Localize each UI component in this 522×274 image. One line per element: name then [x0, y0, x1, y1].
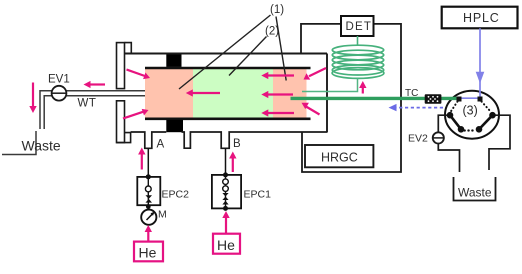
liner green section — [193, 69, 273, 118]
svg-text:(1): (1) — [270, 4, 284, 16]
injector flange plate top — [117, 43, 125, 89]
pointer line 1a — [179, 15, 271, 89]
svg-text:M: M — [158, 209, 167, 221]
gauge M — [141, 210, 156, 225]
wire DET left — [301, 24, 341, 54]
arrow into liner upper left — [127, 70, 145, 76]
liner bottom wall — [145, 118, 311, 121]
He source 1 — [213, 234, 240, 254]
waste container left — [2, 131, 36, 155]
svg-text:TC: TC — [405, 88, 418, 99]
waste container right — [454, 177, 496, 201]
svg-text:Waste: Waste — [458, 186, 492, 200]
detector DET box — [341, 16, 374, 36]
ferrule block bottom — [166, 120, 183, 132]
arrow mid liner left — [191, 92, 220, 94]
liner salmon section 1 — [145, 69, 193, 118]
six-port valve (3) body — [445, 91, 499, 139]
pink arrow He2 to gauge — [147, 230, 149, 242]
svg-text:Waste: Waste — [22, 138, 61, 154]
arrow right-1 — [267, 74, 295, 76]
arrow right-2 — [267, 93, 294, 95]
oven right edge — [326, 54, 328, 133]
arrow diag top right — [309, 68, 326, 76]
valve port squares — [457, 97, 462, 102]
dashed blue return arrow — [396, 107, 443, 109]
flange step top — [125, 43, 132, 54]
valve port dots — [447, 112, 454, 119]
blue port bridge — [459, 97, 481, 99]
HRGC box — [305, 145, 373, 167]
coil top connection — [357, 36, 359, 46]
wire valve right to waste — [489, 115, 510, 170]
svg-text:EPC1: EPC1 — [244, 189, 272, 201]
valve EV2 — [433, 132, 444, 143]
EPC2 box — [137, 177, 160, 205]
arrow right-3 — [267, 112, 295, 114]
liner salmon section 2 — [273, 69, 307, 118]
EPC1 box — [212, 175, 241, 209]
svg-text:EV1: EV1 — [48, 74, 70, 86]
svg-text:He: He — [139, 245, 157, 261]
HPLC box — [442, 7, 518, 29]
WT tube upper line — [40, 91, 145, 129]
pink arrows group — [29, 68, 366, 119]
oven top edge — [125, 53, 328, 55]
svg-text:EPC2: EPC2 — [162, 189, 190, 201]
pink arrow port A — [141, 153, 143, 170]
injector flange plate bottom — [117, 101, 125, 143]
valve internal solid lines — [450, 115, 461, 129]
pink arrow He1 to EPC1 — [225, 216, 227, 234]
coil bottom connection — [302, 79, 358, 92]
blue line HPLC to valve — [479, 28, 481, 97]
arrow diag bottom right — [306, 107, 320, 115]
wire DET right loop — [302, 24, 401, 172]
arrow up to coil — [362, 86, 364, 94]
svg-text:A: A — [157, 139, 165, 151]
pink arrow port B — [232, 157, 234, 172]
liner top wall — [145, 67, 311, 70]
wire valve left to EV2 — [438, 115, 447, 132]
HRGC column coil — [332, 45, 384, 78]
transfer line (thick green) — [291, 97, 458, 100]
pointer line 1b — [276, 17, 286, 81]
svg-text:(3): (3) — [463, 104, 478, 118]
port A capillary — [147, 148, 149, 177]
arrow down to waste left — [32, 83, 34, 107]
svg-text:B: B — [233, 138, 241, 150]
svg-text:HPLC: HPLC — [463, 11, 500, 25]
svg-text:He: He — [217, 237, 235, 253]
port B capillary — [225, 148, 227, 175]
flange step bottom — [117, 133, 131, 143]
svg-text:HRGC: HRGC — [321, 151, 358, 165]
ferrule block top — [166, 54, 181, 67]
oven bottom edge with ports — [131, 132, 327, 148]
blue flow arrowhead — [476, 72, 485, 84]
pointer line 2 — [229, 37, 267, 76]
svg-text:WT: WT — [78, 98, 97, 110]
svg-text:DET: DET — [346, 21, 373, 33]
svg-text:EV2: EV2 — [408, 133, 428, 145]
arrow into liner lower left — [123, 112, 143, 119]
wire EV2 to waste — [438, 144, 459, 173]
arrow left of oven above WT — [89, 83, 105, 85]
He source 2 — [134, 242, 163, 262]
valve EV1 — [52, 86, 67, 101]
valve internal dotted lines — [451, 102, 458, 113]
